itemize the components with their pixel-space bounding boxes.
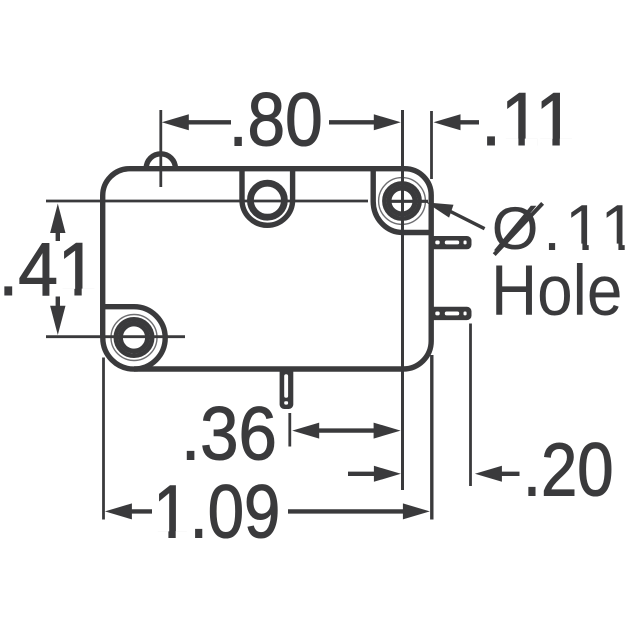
dim .20 left arrow (points right) <box>374 466 401 482</box>
svg-text:.11: .11 <box>481 78 575 161</box>
terminal 2 notch <box>464 312 467 316</box>
hole bottom-left outer ring <box>116 319 152 355</box>
terminal 1 notch <box>464 241 467 245</box>
terminal 2 lower right <box>431 307 472 320</box>
svg-text:.36: .36 <box>181 393 277 476</box>
dim .36 right arrow <box>374 423 401 439</box>
dim .36 left arrow <box>292 423 319 439</box>
extension line x103.5 lower <box>102 358 105 520</box>
hole bottom-left inner ring <box>120 324 147 351</box>
U-shaped cutout top middle <box>242 167 293 226</box>
hole top-right outer ring <box>384 183 419 218</box>
svg-text:Hole: Hole <box>491 252 622 331</box>
centerline tick through hole top-right <box>391 200 428 203</box>
switch body outline <box>103 169 432 369</box>
dim .41 bottom arrow <box>50 306 65 335</box>
white masks: remove serif feet from "1" glyphs (target font has footless 1) <box>61 139 637 540</box>
terminal 2 slot <box>435 312 439 316</box>
dim .80 right arrow <box>374 114 401 130</box>
mounting boss arc bottom-left <box>103 307 165 369</box>
extension line x431.5 top <box>430 111 433 179</box>
dim 1.09 right arrow <box>403 503 430 519</box>
svg-text:1.09: 1.09 <box>153 469 280 553</box>
terminal 1 upper right <box>431 236 472 249</box>
dim .41 top arrow <box>50 204 65 234</box>
svg-text:.20: .20 <box>523 427 614 511</box>
terminal 3 slot <box>284 374 288 398</box>
svg-text:.41: .41 <box>0 228 97 311</box>
hole bottom-left hairline circle <box>111 315 157 361</box>
dim .11 arrow <box>434 114 461 130</box>
extension line x470 terminal tips <box>469 324 472 487</box>
hole top-right hairline circle <box>379 178 426 225</box>
plunger hole circle <box>250 183 284 217</box>
boss inner contour top-right <box>373 167 431 233</box>
hole top-right inner ring <box>389 188 415 214</box>
terminal 3 notch <box>284 401 288 404</box>
dim 1.09 left arrow <box>105 503 132 519</box>
extension line x402.5 hole centerline vertical <box>401 110 404 490</box>
extension line x431.5 lower <box>430 355 433 520</box>
centerline y337.5 horizontal <box>46 335 185 338</box>
terminal 3 bottom common <box>280 368 294 409</box>
annotation diameter slash extension <box>494 203 542 254</box>
extension line x160 through bump <box>159 110 162 187</box>
plunger bump on top edge <box>146 154 175 169</box>
dim .80 left arrow <box>162 114 189 130</box>
svg-text:.80: .80 <box>229 78 323 162</box>
centerline y201 horizontal <box>46 200 368 203</box>
boss cap line bottom-left <box>101 304 135 309</box>
extension line x289.8 below bottom terminal <box>288 413 291 447</box>
dim .36 line <box>318 428 374 432</box>
leader arrow to hole <box>426 202 454 217</box>
dim .20 right arrow (points left) <box>475 466 502 482</box>
terminal 1 slot <box>435 241 439 245</box>
